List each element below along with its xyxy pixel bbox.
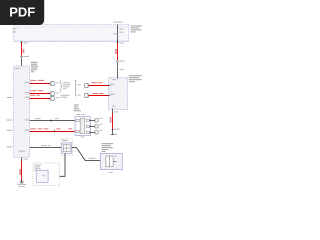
svg-text:PDF: PDF <box>9 4 35 19</box>
